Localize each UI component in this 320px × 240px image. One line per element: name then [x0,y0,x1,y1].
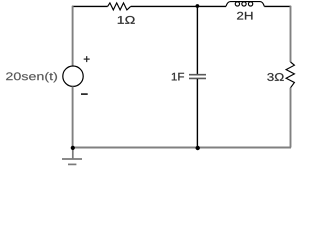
label 2H [237,12,252,20]
wire left vertical upper [72,6,74,66]
wire top horizontal (node A net) [72,5,291,7]
resistor R2 3ohm [286,62,294,88]
wire bottom horizontal (ground net) [73,147,291,149]
voltage source V1 20sen(t) [63,66,83,86]
node B junction dot bottom [196,146,200,150]
minus sign [81,93,88,95]
wire capacitor branch lower [196,79,198,148]
wire left vertical lower [72,86,74,147]
inductor L1 2H [226,2,264,7]
label 1F [172,73,184,81]
capacitor C1 1F [189,75,206,79]
wire right vertical lower [290,88,292,148]
resistor R1 1ohm [108,3,131,10]
label 1ohm [118,16,135,24]
label 3ohm [267,73,283,81]
wire right vertical upper [290,6,292,62]
plus sign [84,56,90,62]
label 20sen(t) [6,72,57,82]
wire capacitor branch upper [196,6,198,74]
ground symbol [62,148,82,165]
ground junction dot [71,146,75,150]
node A junction dot top [196,4,200,8]
